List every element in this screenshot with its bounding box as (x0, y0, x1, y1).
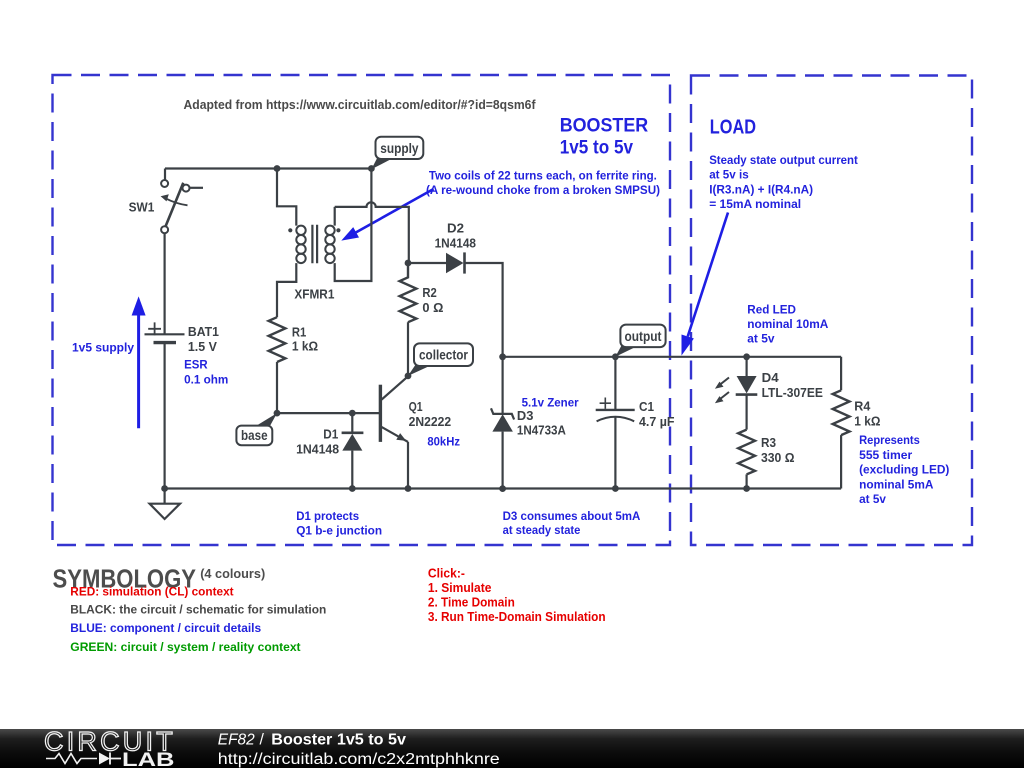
node label supply (371, 137, 423, 170)
zener D3 (491, 357, 514, 489)
svg-text:RED: simulation (CL) context: RED: simulation (CL) context (70, 584, 233, 598)
svg-text:Q1: Q1 (409, 399, 423, 414)
symbology blue line (70, 621, 261, 635)
svg-text:2N2222: 2N2222 (409, 414, 452, 429)
node label collector (408, 343, 473, 376)
label Q1 (409, 399, 452, 429)
svg-text:Represents: Represents (859, 433, 920, 447)
battery BAT1 (145, 322, 185, 342)
svg-text:at 5v: at 5v (859, 492, 886, 506)
svg-text:http://circuitlab.com/c2x2mtph: http://circuitlab.com/c2x2mtphhknre (218, 751, 500, 768)
svg-text:base: base (241, 428, 268, 443)
resistor R3 (738, 430, 755, 489)
svg-text:D1: D1 (323, 427, 338, 442)
svg-text:0.1 ohm: 0.1 ohm (184, 373, 228, 387)
svg-text:Click:-: Click:- (428, 566, 465, 580)
svg-text:= 15mA nominal: = 15mA nominal (709, 197, 801, 211)
annotation: 1v5 supply text (72, 341, 134, 355)
wire secondary bottom to supply rail (335, 169, 372, 282)
svg-text:D3 consumes about 5mA: D3 consumes about 5mA (503, 509, 641, 523)
wire battery to ground rail (164, 343, 166, 489)
node label output (615, 325, 665, 357)
annotation arrow to output node (682, 213, 729, 356)
svg-text:collector: collector (419, 348, 469, 363)
svg-text:D1 protects: D1 protects (296, 509, 359, 523)
diode D1 (342, 413, 364, 488)
svg-text:330 Ω: 330 Ω (761, 450, 795, 465)
resistor R4 (833, 357, 850, 489)
label R3 (761, 435, 795, 465)
footer title (218, 731, 406, 748)
label D1 (296, 427, 339, 457)
label BAT1 (188, 324, 219, 354)
svg-text:GREEN: circuit / system / real: GREEN: circuit / system / reality contex… (70, 640, 300, 654)
annotation: 1v5 supply arrow (132, 296, 146, 428)
svg-text:SW1: SW1 (129, 200, 155, 215)
svg-text:supply: supply (380, 141, 419, 156)
svg-text:nominal 5mA: nominal 5mA (859, 477, 934, 491)
svg-text:3. Run Time-Domain Simulation: 3. Run Time-Domain Simulation (428, 610, 606, 624)
annotation: steady state output current (709, 153, 858, 211)
label D2 (435, 220, 476, 250)
wire R1 to base node (276, 362, 278, 413)
note: adapted-from header (184, 97, 537, 112)
label D3 (517, 408, 567, 438)
annotation: D1 protects (296, 509, 382, 538)
svg-text:C1: C1 (639, 399, 654, 414)
svg-text:(4 colours): (4 colours) (200, 566, 265, 581)
svg-text:0 Ω: 0 Ω (422, 300, 443, 315)
transformer XFMR1 (288, 225, 340, 264)
svg-text:Q1 b-e junction: Q1 b-e junction (296, 523, 382, 537)
resistor R2 (400, 263, 417, 322)
symbology heading (53, 564, 266, 594)
click instructions (428, 566, 606, 624)
resistor R1 (269, 317, 286, 362)
svg-text:2. Time Domain: 2. Time Domain (428, 596, 515, 610)
annotation: red LED text (747, 302, 828, 345)
diode D2 (408, 252, 503, 356)
svg-text:BLUE: component / circuit deta: BLUE: component / circuit details (70, 621, 261, 635)
wire R2 to collector (407, 322, 409, 376)
svg-text:Red LED: Red LED (747, 302, 796, 316)
label C1 (639, 399, 675, 429)
svg-text:R1: R1 (292, 325, 306, 340)
svg-text:Steady state output current: Steady state output current (709, 153, 858, 167)
CircuitLab logo (44, 727, 176, 768)
svg-text:BLACK: the circuit / schematic: BLACK: the circuit / schematic for simul… (70, 603, 326, 617)
svg-text:555 timer: 555 timer (859, 448, 912, 462)
svg-text:R4: R4 (854, 399, 871, 414)
svg-text:1. Simulate: 1. Simulate (428, 581, 492, 595)
svg-text:1N4148: 1N4148 (296, 442, 339, 457)
label R2 (422, 285, 443, 315)
svg-text:1N4733A: 1N4733A (517, 423, 567, 438)
svg-text:LAB: LAB (122, 750, 175, 768)
symbology red line (70, 584, 233, 598)
label R4 (854, 399, 880, 429)
wire emitter to ground (407, 442, 409, 489)
label D4 (762, 370, 824, 400)
annotation: Represents 555 timer (859, 433, 949, 506)
svg-text:XFMR1: XFMR1 (294, 287, 334, 302)
title BOOSTER 1v5 to 5v (560, 116, 649, 159)
svg-text:BOOSTER: BOOSTER (560, 116, 649, 137)
svg-text:1.5 V: 1.5 V (188, 339, 217, 354)
svg-text:1v5 supply: 1v5 supply (72, 341, 134, 355)
footer url (218, 751, 500, 768)
svg-text:I(R3.nA) + I(R4.nA): I(R3.nA) + I(R4.nA) (709, 182, 813, 196)
svg-text:nominal 10mA: nominal 10mA (747, 317, 828, 331)
svg-text:1N4148: 1N4148 (435, 235, 476, 250)
svg-text:Two coils of 22 turns each, on: Two coils of 22 turns each, on ferrite r… (429, 169, 657, 183)
svg-text:1 kΩ: 1 kΩ (854, 414, 880, 429)
svg-text:4.7 µF: 4.7 µF (639, 414, 675, 429)
node label base (236, 413, 277, 445)
svg-text:at steady state: at steady state (503, 523, 581, 537)
annotation arrow to transformer (341, 189, 433, 241)
wire base (277, 412, 379, 414)
svg-text:1 kΩ: 1 kΩ (292, 339, 318, 354)
svg-text:EF82: EF82 (218, 731, 255, 748)
svg-text:at 5v is: at 5v is (709, 168, 749, 182)
symbology green line (70, 640, 300, 654)
wire supply rail (165, 167, 371, 169)
annotation: D3 consumes (503, 509, 641, 537)
label R1 (292, 325, 318, 354)
wire switch to battery (164, 233, 166, 334)
label SW1 (129, 200, 155, 215)
svg-text:BAT1: BAT1 (188, 324, 219, 339)
junction dots (161, 165, 750, 492)
svg-text:output: output (625, 329, 662, 344)
footer bar (0, 729, 1024, 768)
svg-text:(A re-wound choke from a broke: (A re-wound choke from a broken SMPSU) (426, 183, 660, 197)
wire output rail (503, 356, 841, 358)
svg-text:Adapted from https://www.circu: Adapted from https://www.circuitlab.com/… (184, 97, 537, 112)
svg-text:R2: R2 (422, 285, 436, 300)
capacitor C1 (596, 357, 635, 489)
switch SW1 (161, 169, 203, 234)
boundary box BOOSTER (53, 75, 671, 545)
svg-text:LTL-307EE: LTL-307EE (762, 385, 824, 400)
annotation: 5.1v Zener (522, 396, 579, 410)
annotation: 80kHz (427, 434, 460, 448)
svg-text:LOAD: LOAD (710, 116, 756, 138)
annotation: two coils text (426, 169, 660, 198)
label XFMR1 (294, 287, 334, 302)
svg-text:80kHz: 80kHz (427, 434, 460, 448)
svg-text:Booster 1v5 to 5v: Booster 1v5 to 5v (271, 731, 406, 748)
wire ground rail (165, 487, 842, 489)
svg-text:ESR: ESR (184, 358, 208, 372)
wire secondary top with hop (335, 202, 409, 263)
svg-text:(excluding LED): (excluding LED) (859, 463, 949, 477)
svg-text:D4: D4 (762, 370, 780, 385)
LED D4 (715, 357, 757, 430)
svg-text:D2: D2 (447, 220, 464, 235)
annotation: ESR text (184, 358, 228, 387)
wire primary bottom to R1 (277, 263, 296, 317)
boundary box LOAD (691, 76, 972, 546)
symbology black line (70, 603, 326, 617)
svg-text:1v5 to 5v: 1v5 to 5v (560, 138, 634, 159)
svg-text:D3: D3 (517, 408, 534, 423)
wire primary riser (277, 169, 296, 226)
ground (150, 489, 180, 520)
svg-text:at 5v: at 5v (747, 332, 774, 346)
svg-text:/: / (260, 731, 265, 748)
transistor Q1 (380, 376, 408, 442)
title LOAD (710, 116, 756, 138)
svg-text:R3: R3 (761, 435, 776, 450)
